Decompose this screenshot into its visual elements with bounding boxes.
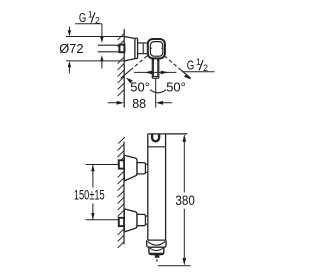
body top edge + 380 top extension line <box>148 133 188 135</box>
380 bottom extension line <box>158 265 191 267</box>
arrowhead ray left end <box>126 78 133 84</box>
aerator stub <box>155 255 160 258</box>
svg-text:Ø72: Ø72 <box>59 41 83 56</box>
supply pipe (top view) <box>98 45 120 52</box>
label G1/2 right <box>187 57 208 73</box>
body seam line <box>148 146 166 148</box>
upper neck <box>146 164 148 172</box>
mousseur inner arc <box>150 248 163 250</box>
svg-text:1: 1 <box>196 57 201 67</box>
arrowhead angle right outward <box>161 71 169 75</box>
svg-text:2: 2 <box>95 16 100 26</box>
outlet collar <box>147 240 166 247</box>
angle arc between 50 labels <box>150 90 166 93</box>
svg-text:50°: 50° <box>166 79 186 94</box>
upper escutcheon trapezoid <box>124 155 137 181</box>
hose holder U at body top <box>152 134 159 141</box>
svg-text:G: G <box>187 59 194 73</box>
G1/2 lower arrow shaft <box>101 61 103 69</box>
arrowhead 150 up <box>91 165 94 172</box>
neck (top view) <box>138 43 148 54</box>
arrowhead G1/2 up <box>100 55 103 61</box>
arrowhead 150 down <box>91 213 94 220</box>
G1/2 top leader arrow shaft <box>101 24 103 37</box>
svg-text:380: 380 <box>175 193 194 208</box>
union square (top view) <box>119 45 124 53</box>
arrowhead G1/2 top down <box>100 37 103 43</box>
lower escutcheon trapezoid <box>124 209 137 232</box>
G1/2 right underline <box>182 71 215 73</box>
dashed swing ray right <box>164 56 180 70</box>
outlet centerline dash <box>156 259 158 262</box>
svg-text:G: G <box>79 11 86 25</box>
dimension Ø72 arrow shafts <box>68 27 70 74</box>
wall line (front view) <box>123 142 125 245</box>
escutcheon face ring (top view) <box>135 38 138 58</box>
150 dimension line <box>92 165 94 220</box>
upper nut <box>137 163 146 174</box>
label G1/2 top <box>79 10 100 26</box>
body bottom edge <box>148 239 166 241</box>
svg-text:150±15: 150±15 <box>74 186 105 202</box>
stem centerline extension <box>155 78 157 107</box>
solid ray end right <box>180 69 191 78</box>
lower neck <box>146 216 148 224</box>
88 dimension arrows lines <box>108 102 172 104</box>
escutcheon cone (top view) <box>125 37 136 61</box>
380 dimension line <box>183 142 185 258</box>
arrowhead 88 right <box>156 101 164 105</box>
svg-text:2: 2 <box>203 63 208 73</box>
dimension Ø72 extension lines <box>66 37 124 61</box>
arrowhead Ø72 up <box>68 61 71 67</box>
dashed swing ray left <box>131 56 147 70</box>
arrowhead 380 up <box>183 134 187 142</box>
arrowhead angle left outward <box>144 71 152 75</box>
svg-text:88: 88 <box>132 96 146 111</box>
svg-text:50°: 50° <box>130 79 150 94</box>
svg-text:1: 1 <box>88 10 93 20</box>
lever stem (top view) <box>152 58 159 78</box>
arrowhead 380 down <box>183 258 187 266</box>
wall line (top view) <box>123 29 125 108</box>
lower nut <box>137 214 146 225</box>
lower union square (front view) <box>119 218 124 226</box>
handle inner edge ticks <box>150 47 162 49</box>
arrowhead ray right end <box>184 74 191 80</box>
angle dimension line horizontal <box>134 71 176 73</box>
mousseur bottom rim <box>150 253 163 255</box>
upper union square (front view) <box>119 160 124 168</box>
G1/2 top leader underline <box>75 23 102 25</box>
wall hatching (top view) <box>118 34 125 97</box>
arrowhead 88 left <box>117 101 124 105</box>
body (front view) <box>148 134 166 240</box>
solid ray end left <box>121 69 132 78</box>
handle inner squircle (top view) <box>150 42 162 57</box>
wall hatching (front view) <box>118 137 125 248</box>
arrowhead Ø72 down <box>68 30 71 36</box>
handle outer squircle (top view) <box>148 39 165 58</box>
outlet mouth arc <box>148 241 166 245</box>
mousseur housing <box>149 247 164 254</box>
stem joint nubs <box>153 59 158 62</box>
150 dimension extension lines <box>86 165 119 220</box>
